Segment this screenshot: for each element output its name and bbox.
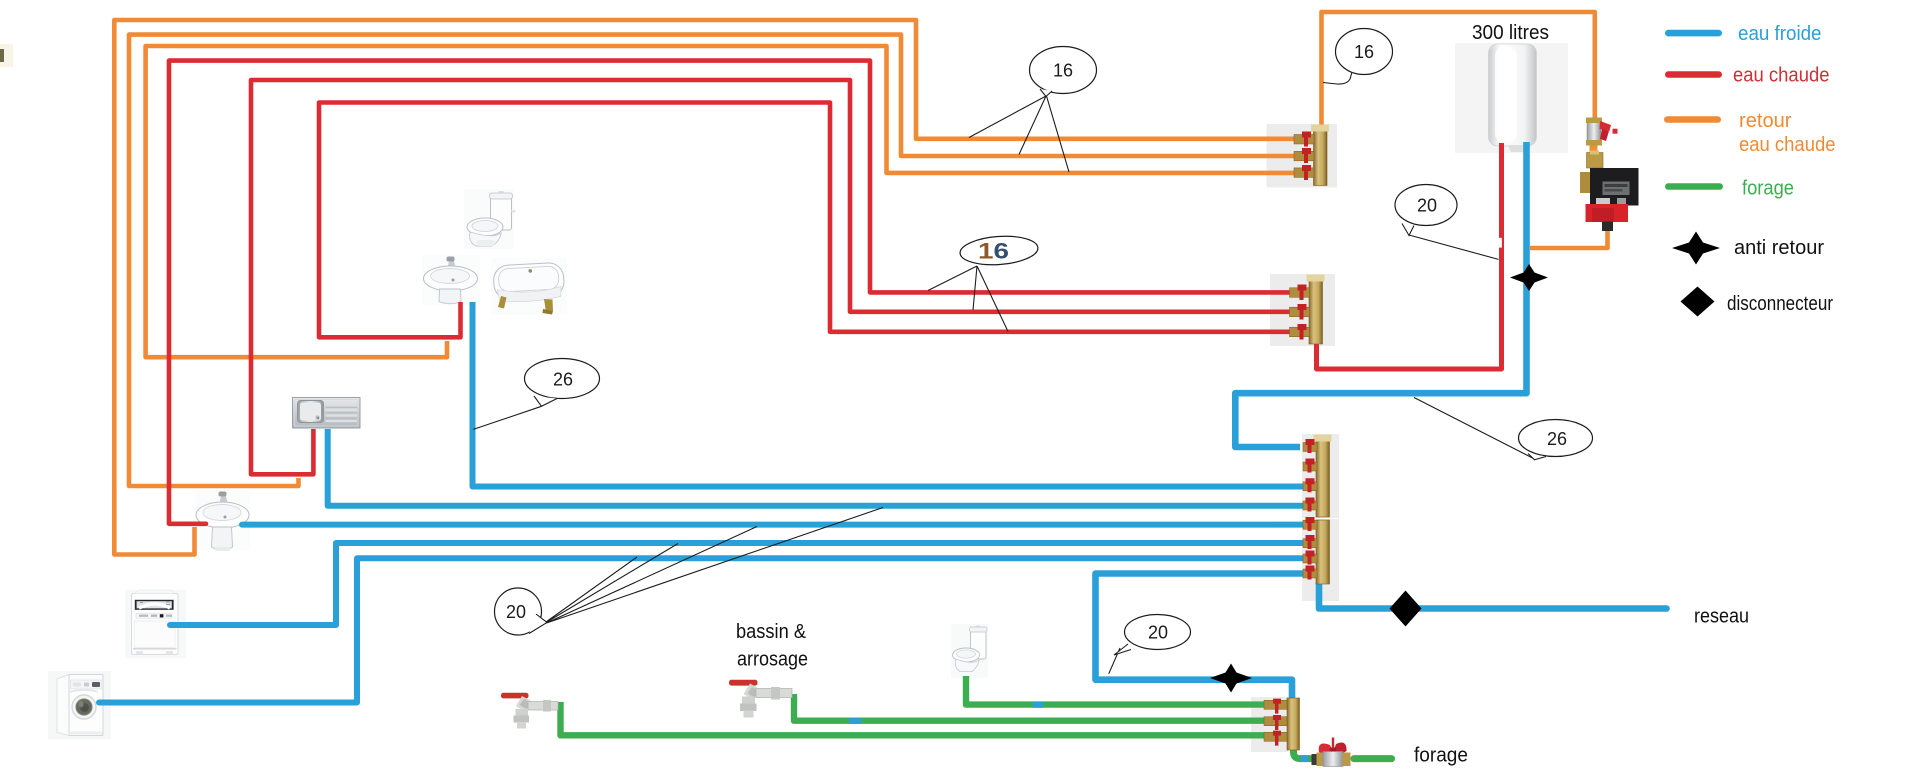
wire: forage robinet exterieur [561, 702, 1269, 735]
wire: retour collecteur -> vanne circulateur (haut droite) [1322, 12, 1595, 126]
blue blip artifact near green manifold outlet [1301, 755, 1308, 762]
wire: eau froide salle de bain [473, 302, 1305, 487]
bulle 16 (eau chaude) [928, 234, 1039, 332]
lave-vaisselle (dishwasher) [125, 590, 186, 658]
bulle 20 (alimentations eau froide) [495, 508, 884, 636]
wire: forage robinet bassin/arrosage [794, 694, 1268, 721]
svg-text:eau chaude: eau chaude [1733, 65, 1830, 87]
legende retour eau chaude [1664, 116, 1721, 123]
manifold eau froide haut (collecteur 4 sorties) [1303, 435, 1332, 518]
blue blip artifact on green arrosage line [849, 718, 861, 724]
wc bassin (toilet 2) [951, 624, 988, 678]
vanne d'arret forage (vanne a boisseau) [1312, 738, 1351, 767]
wc salle de bain (toilet 1) [464, 189, 516, 249]
wire: eau chaude sortie ballon -> collecteur eau chaude [1317, 143, 1502, 369]
bulle 26 (eau froide ballon) [1414, 398, 1593, 460]
wire: eau froide alimentation ballon [1235, 142, 1526, 447]
svg-text:20: 20 [1148, 623, 1168, 643]
wire: eau froide collecteur -> collecteur forage [1096, 574, 1305, 701]
bulle 26 (eau froide salle de bain) [473, 359, 599, 430]
svg-text:eau chaude: eau chaude [1739, 134, 1836, 156]
svg-text:26: 26 [553, 370, 573, 390]
svg-text:20: 20 [506, 602, 526, 622]
wire: collecteur forage -> vanne forage [1294, 737, 1313, 759]
svg-text:forage: forage [1414, 745, 1468, 767]
svg-text:26: 26 [1547, 429, 1567, 449]
evier cuisine (kitchen sink) [293, 398, 361, 429]
svg-text:retour: retour [1739, 110, 1792, 132]
manifold eau froide haut (collecteur 4 sorties) : fond [1302, 434, 1339, 518]
robinet bassin & arrosage [729, 680, 792, 718]
wire: eau chaude lavabo SdB1 [169, 61, 1293, 524]
wire: eau froide lavabo SdB1 [242, 522, 1304, 528]
raccord gap on ballon hot pipe [1499, 238, 1502, 248]
manifold forage (collecteur 3 sorties) [1264, 698, 1300, 750]
anti retour (clapet) sur liaison forage [1210, 664, 1252, 693]
anti retour (clapet) sur eau froide ballon [1510, 264, 1548, 291]
svg-text:arrosage: arrosage [737, 649, 808, 671]
manifold eau chaude (collecteur 3 sorties) : fond [1270, 274, 1335, 346]
bulle 20 (liaison forage) [1109, 615, 1191, 674]
svg-text:16: 16 [978, 239, 1009, 264]
svg-text:20: 20 [1417, 196, 1437, 216]
svg-text:disconnecteur: disconnecteur [1727, 293, 1833, 315]
lave-linge (washing machine) [48, 671, 111, 739]
wire: eau froide lave-linge [99, 558, 1304, 702]
disconnecteur sur ligne reseau [1390, 591, 1422, 627]
wire: eau chaude salle de bain [319, 103, 1293, 338]
wire: forage wc exterieur [966, 676, 1268, 705]
svg-text:16: 16 [1053, 61, 1073, 81]
svg-text:anti retour: anti retour [1734, 237, 1824, 259]
wire: eau froide evier cuisine [328, 429, 1304, 506]
legende [1664, 23, 1836, 317]
blue blip artifact on green wc line [1033, 702, 1043, 708]
wire: eau froide reseau -> collecteur (ligne reseau) [1319, 582, 1667, 609]
manifold retour eau chaude (collecteur 3 sorties) : fond [1267, 124, 1338, 188]
wire: retour eau chaude loop 1 (lavabo SdB1 -> collecteur retour) [114, 20, 1297, 555]
robinet exterieur 1 [501, 693, 558, 729]
legende eau froide [1665, 30, 1722, 37]
svg-text:300 litres: 300 litres [1472, 22, 1549, 44]
edge artifact blob top-left [0, 44, 13, 67]
manifold eau froide bas (collecteur 4 sorties) : fond [1302, 519, 1339, 601]
legende eau chaude [1665, 71, 1722, 78]
ballon 300 litres (chauffe-eau) [1455, 43, 1568, 153]
manifold retour eau chaude (collecteur 3 sorties) [1294, 125, 1329, 186]
legende anti retour [1672, 232, 1720, 265]
svg-text:16: 16 [1354, 42, 1374, 62]
manifold eau chaude (collecteur 3 sorties) [1290, 275, 1325, 345]
bulle 20 (eau chaude ballon) [1395, 185, 1499, 260]
lavabo SdB1 (pedestal sink 1) [195, 490, 250, 551]
wire: vanne forage -> arrivee forage [1354, 755, 1392, 762]
svg-text:forage: forage [1742, 178, 1794, 200]
manifold forage (collecteur 3 sorties) : fond [1251, 697, 1288, 752]
wire: retour eau chaude loop 3 (salle de bain -> collecteur retour) [146, 46, 1297, 357]
lavabo salle de bain (pedestal sink 2) [422, 255, 480, 305]
bulle 16 (retour collecteur) [1323, 29, 1393, 85]
legende disconnecteur [1681, 287, 1715, 317]
wire: eau chaude evier cuisine [251, 80, 1293, 474]
bulle 16 (retours) [969, 47, 1097, 173]
svg-text:bassin &: bassin & [736, 621, 807, 643]
wire: eau froide lave-vaisselle [170, 543, 1304, 625]
manifold eau froide bas (collecteur 4 sorties) [1303, 517, 1330, 584]
svg-text:eau froide: eau froide [1738, 23, 1822, 45]
wire: sortie circulateur -> piquage eau froide [1530, 229, 1608, 248]
svg-text:reseau: reseau [1694, 606, 1749, 628]
vanne + circulateur (groupe retour) [1580, 118, 1639, 232]
legende forage [1665, 183, 1723, 190]
wire: retour eau chaude loop 2 (evier cuisine -> collecteur retour) [129, 35, 1297, 486]
